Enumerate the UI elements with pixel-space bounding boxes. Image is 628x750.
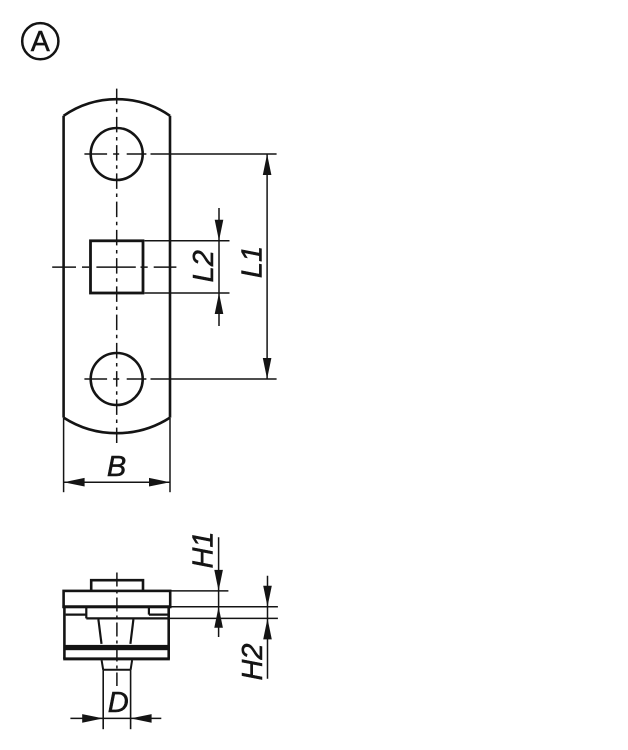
B extension line right: [169, 418, 171, 492]
horizontal centerline hole top: [84, 153, 146, 155]
H1 H2 shared extension line: [171, 606, 278, 608]
L1 arrow bottom: [263, 358, 272, 379]
H2 bottom extension line: [169, 617, 278, 619]
L2 extension line top: [145, 240, 230, 242]
plate top arc: [64, 99, 170, 116]
vertical centerline (top view): [116, 89, 118, 443]
cone left line: [98, 620, 101, 644]
svg-text:A: A: [31, 26, 50, 58]
side view body right wall: [167, 607, 170, 659]
B extension line left: [63, 418, 65, 492]
side view flange rect: [64, 591, 171, 607]
D arrow left: [82, 714, 103, 723]
L2 arrow top: [215, 220, 224, 241]
view label A circle: [22, 23, 58, 59]
H2 arrow bottom: [263, 618, 272, 639]
L2 dimension line: [218, 208, 220, 326]
svg-text:D: D: [108, 687, 129, 719]
L1 extension line bottom: [151, 378, 277, 380]
svg-text:H2: H2: [237, 643, 269, 680]
D dimension line: [70, 717, 161, 719]
L1 arrow top: [263, 154, 272, 175]
svg-text:L2: L2: [188, 250, 220, 282]
horizontal centerline hole bottom: [84, 378, 146, 380]
washer center bottom edge: [86, 617, 169, 619]
side view body left wall: [63, 607, 66, 659]
cone right line: [130, 620, 133, 644]
B dimension line: [64, 481, 170, 483]
square boss (top view): [91, 241, 144, 293]
H1 arrow bottom: [214, 607, 223, 628]
plate bottom arc: [64, 418, 170, 434]
L1 dimension line: [266, 154, 268, 379]
hole top: [91, 128, 143, 180]
stud thread relief trapezoid right: [131, 660, 133, 670]
washer right step vertical: [148, 607, 150, 615]
H1 arrow top: [214, 570, 223, 591]
svg-text:L1: L1: [237, 246, 269, 278]
stud left edge: [102, 670, 104, 729]
stud thread relief bottom: [103, 669, 130, 671]
svg-text:H1: H1: [188, 531, 220, 568]
side view boss top rect: [91, 580, 143, 591]
stud right edge: [130, 670, 132, 729]
side view body bottom thick line: [63, 657, 170, 660]
D arrow right: [131, 714, 152, 723]
L1 extension line top: [151, 153, 277, 155]
hole bottom: [91, 353, 143, 405]
side view flange bottom thick line: [62, 605, 171, 608]
B arrow right: [149, 478, 170, 487]
B arrow left: [64, 478, 85, 487]
svg-text:B: B: [107, 451, 126, 483]
plate right edge: [169, 116, 172, 418]
horizontal centerline square boss: [52, 266, 176, 268]
H2 arrow top: [263, 586, 272, 607]
side view washer thick band: [64, 645, 169, 650]
stud thread relief trapezoid left: [102, 660, 104, 670]
washer left rim bottom: [66, 613, 87, 615]
washer right rim bottom: [149, 613, 168, 615]
H2 dimension line: [267, 576, 269, 679]
plate left edge: [62, 116, 65, 418]
H1 extension line top: [171, 590, 228, 592]
side view vertical centerline: [116, 573, 118, 687]
washer left step vertical: [85, 607, 87, 619]
L2 arrow bottom: [215, 293, 224, 314]
H1 dimension line: [218, 537, 220, 637]
L2 extension line bottom: [145, 292, 230, 294]
